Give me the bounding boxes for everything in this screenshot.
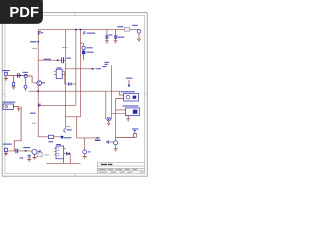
switch S1 program <box>3 104 21 111</box>
diode D3 <box>65 72 76 86</box>
wire Q4 emitter <box>84 154 86 156</box>
label gray local top <box>62 47 67 48</box>
wire led stub <box>80 43 83 46</box>
sheet outer border <box>2 13 147 177</box>
label +5V_PGM <box>132 128 138 129</box>
label blue x66.8 flag <box>66 129 71 130</box>
resistor R4 label row60 <box>43 59 51 60</box>
wire mic row <box>7 150 31 152</box>
ground under header <box>126 116 130 122</box>
label PROGRAM_SW <box>2 102 15 103</box>
junction dot rail <box>37 90 39 92</box>
label bus flag <box>87 33 96 34</box>
speaker D5 <box>66 152 69 155</box>
net flag bus x83.8 <box>84 32 86 35</box>
label AUDIO_OUT <box>64 137 71 138</box>
plug P1 left of U2 <box>37 152 49 156</box>
label Q4 <box>88 151 91 152</box>
battery J1 <box>137 30 141 42</box>
wire spk row <box>66 154 70 159</box>
net port base Q3 <box>106 141 113 144</box>
capacitor C5 row60 <box>62 57 64 63</box>
IC U1 box <box>54 67 65 78</box>
label u-05 <box>23 72 28 73</box>
wire bottom rail <box>47 162 81 164</box>
resistor R9 <box>133 133 136 137</box>
transistor Q4 <box>83 150 87 154</box>
net flag row y105 <box>39 104 41 107</box>
IC U2 box bottom <box>54 144 66 159</box>
capacitor C8 inline <box>17 73 19 78</box>
wire R9 to Q3 <box>116 136 135 138</box>
label Q1 stub <box>42 81 45 84</box>
junction dot y137.9 <box>97 137 99 139</box>
relay K1 box <box>124 94 139 102</box>
wire row y137.9 <box>77 137 101 139</box>
junction dot bus x80.4 <box>80 29 82 31</box>
title block <box>97 162 144 173</box>
capacitor C13 below <box>27 154 31 162</box>
transistor Q2 mid <box>107 118 110 121</box>
junction dot mic <box>25 150 27 152</box>
label net x112 line2 <box>104 64 107 65</box>
label R6 <box>86 52 93 53</box>
capacitor C1 <box>105 30 109 43</box>
wire mosfet rail <box>29 90 113 92</box>
label C2 <box>117 37 124 38</box>
wire gate <box>33 82 37 84</box>
wire rail to relay <box>112 91 123 95</box>
net flag VBAT top-left <box>39 31 41 34</box>
label net x112 line1 <box>104 62 109 63</box>
label net row68 above <box>102 66 106 67</box>
wire relay lower pin <box>116 99 124 141</box>
PDF badge <box>0 0 43 24</box>
label mic value <box>20 157 24 158</box>
LED D2 <box>82 46 85 49</box>
label under fuse <box>48 141 53 142</box>
capacitor C9 polarized <box>24 74 27 77</box>
wire x105.8 <box>105 91 107 119</box>
wire audio out row <box>38 136 61 138</box>
label D2 <box>86 47 92 48</box>
net flag AUDIO <box>61 136 64 139</box>
wire switch to mic bias <box>14 106 21 150</box>
wire x84.7 drop <box>84 138 86 150</box>
junction dot row68 <box>92 68 94 70</box>
resistor R8 left drop <box>12 76 16 90</box>
title row small text 1 <box>99 168 138 171</box>
wire row y68.8 <box>66 68 96 70</box>
net flag R6 <box>82 51 85 54</box>
ground under Q4 <box>83 157 87 159</box>
junction dot bus x75.9 <box>75 29 77 31</box>
net port RLY_ON <box>126 78 133 88</box>
label gray R21 <box>32 48 37 49</box>
wire left vertical below Q1 <box>37 85 39 136</box>
wire c9 to gate <box>26 76 32 91</box>
opamp U3 mic <box>32 149 41 154</box>
wire VBAT top bus <box>38 29 139 31</box>
sheet inner frame <box>5 15 145 173</box>
frame zone ticks <box>2 13 147 177</box>
transistor Q1 <box>37 81 42 86</box>
label gray small mid <box>32 123 36 124</box>
svg-text:PDF: PDF <box>9 5 39 21</box>
audio out chain: fuse box <box>48 135 53 138</box>
wire Q1 drain stub <box>42 82 45 84</box>
label C5 <box>66 58 71 59</box>
label under row y137.9 <box>95 140 101 141</box>
wire mid vertical B <box>79 30 81 117</box>
transistor Q3 <box>114 141 118 145</box>
program header J3 box <box>112 108 140 116</box>
fuse F1 inline <box>124 28 129 32</box>
title row small text 2 <box>99 172 144 173</box>
wire mid vertical A <box>75 30 77 106</box>
label +5V top <box>117 26 123 27</box>
label +BATT top <box>132 25 138 26</box>
label SPK+ mid <box>30 113 36 114</box>
label MIC_BIAS <box>3 144 12 145</box>
label VBAT left <box>30 41 36 42</box>
wire row y105.3 <box>38 104 76 106</box>
label C1 <box>109 34 113 35</box>
net flag x66.8 end <box>64 128 66 132</box>
label GND_audio <box>2 70 10 71</box>
label K1 <box>120 91 134 92</box>
capacitor C10 small circle <box>24 85 27 88</box>
label net row68 on line <box>96 68 101 69</box>
wire audio in row <box>7 75 26 77</box>
wire x111.6 net stub <box>111 65 113 119</box>
wire row y116.8 <box>66 116 81 118</box>
junction dot left vbat <box>37 41 39 43</box>
wire mid column x65.5 <box>65 30 67 129</box>
label program header <box>123 105 139 106</box>
label C12 <box>23 147 30 148</box>
title text Boost Driver <box>101 164 107 165</box>
ground bottom rail left <box>46 162 48 165</box>
junction dot row60 <box>57 59 59 61</box>
wire led to r6 <box>83 50 85 61</box>
wire left main vertical <box>37 30 39 81</box>
ground under Q2 <box>107 121 111 125</box>
mic connector J4 <box>4 148 8 156</box>
capacitor C12 inline mic <box>16 149 18 154</box>
wire U2 bottom to rail <box>63 159 70 164</box>
power flag +5V_PGM <box>133 130 136 133</box>
capacitor C2 <box>114 30 118 43</box>
label gray x66.8 flag <box>66 126 71 127</box>
wire x76.7 drop <box>76 117 78 138</box>
wire row y60 <box>38 59 65 61</box>
connector J2 audio left <box>4 72 8 81</box>
ground right of mic <box>33 154 37 160</box>
ground under Q3 <box>114 145 118 151</box>
